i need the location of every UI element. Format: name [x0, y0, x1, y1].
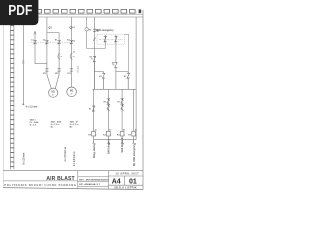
frame left border — [2, 10, 4, 188]
wire feeder W1 — [22, 17, 24, 104]
svg-text:2T1: 2T1 — [43, 73, 46, 75]
svg-text:SAK blower 2: SAK blower 2 — [121, 137, 124, 153]
wire branch C — [70, 17, 72, 87]
wire top supply bus L1 — [3, 16, 143, 18]
wire slant A to motor M1 — [47, 75, 51, 89]
frame column ticks — [6, 11, 137, 15]
svg-text:4 x 1,5: 4 x 1,5 — [30, 123, 37, 126]
label F1 — [61, 55, 63, 57]
svg-text:MCB emergency: MCB emergency — [96, 30, 115, 32]
contacts on branch 2 — [107, 98, 110, 111]
wire supply elbow — [35, 63, 47, 65]
label F2 — [73, 55, 75, 57]
wire branch A — [46, 17, 48, 75]
switch slash on rail — [93, 38, 95, 41]
svg-text:6T3: 6T3 — [67, 73, 70, 75]
breaker pole contact on branch A — [45, 40, 48, 44]
svg-text:6 x 1,5 mm: 6 x 1,5 mm — [26, 106, 38, 108]
coil K2 — [106, 131, 110, 136]
overload contact on branch B — [58, 69, 61, 71]
terminal strip rungs — [10, 16, 14, 166]
date row bottom line — [109, 175, 144, 177]
wire coil branch 2 — [107, 89, 109, 131]
fuse F0 stub wire — [86, 17, 88, 28]
aux contact K2 — [102, 72, 105, 90]
breaker pole contact on supply line — [33, 40, 36, 44]
wire coil branch 4 — [133, 89, 135, 131]
wire control rail — [93, 17, 95, 89]
wire control mid bus — [93, 88, 137, 90]
MCB pole 1 — [104, 35, 107, 44]
svg-text:K1: K1 — [55, 39, 57, 41]
svg-text:13: 13 — [73, 41, 75, 43]
overload contact on branch A — [45, 69, 48, 71]
title block left divider line — [3, 180, 78, 182]
supply arrow incoming feed — [34, 31, 36, 34]
svg-text:01: 01 — [129, 178, 137, 185]
sheet cell divider — [124, 176, 126, 185]
svg-text:PDF: PDF — [8, 2, 32, 19]
note block cable A — [30, 118, 39, 126]
note block cable C — [70, 120, 80, 128]
wire from MCB box to K1 aux branch — [125, 33, 129, 35]
coil terminal labels — [95, 129, 137, 137]
svg-text:POLITEKNIK NEGERI UJUNG PANDAN: POLITEKNIK NEGERI UJUNG PANDANG — [4, 183, 76, 187]
disconnect contact on rail — [93, 29, 96, 31]
motor M2 — [67, 87, 77, 97]
wire coil branch 3 — [121, 89, 123, 131]
svg-text:K2: K2 — [104, 101, 106, 103]
stub below bus 3 — [121, 140, 123, 144]
svg-text:4T2: 4T2 — [55, 72, 58, 75]
wire coil branch 1 — [93, 89, 95, 131]
coil K3 — [120, 131, 124, 136]
svg-text:Rang. utama: Rang. utama — [93, 143, 96, 158]
node end of feeder W1 — [22, 103, 24, 105]
svg-text:21: 21 — [73, 51, 75, 53]
middle box row divider — [78, 180, 109, 182]
frame right border — [142, 10, 144, 190]
svg-text:6 x 2,5 mm: 6 x 2,5 mm — [24, 153, 26, 165]
svg-text:DIP : ADHAR AB, S.T: DIP : ADHAR AB, S.T — [79, 183, 100, 186]
wire supply shaft — [34, 31, 36, 63]
svg-text:L1: L1 — [73, 27, 75, 29]
wire S2 branch to K1 aux — [115, 68, 117, 89]
svg-text:4 x 1,5 mm re: 4 x 1,5 mm re — [64, 146, 67, 161]
contactor contact K2 on branch C — [70, 40, 73, 44]
svg-text:K2: K2 — [99, 76, 101, 78]
wire coil3 to bus — [121, 136, 123, 140]
sheet row bottom line — [109, 184, 144, 186]
svg-text:K1: K1 — [89, 108, 91, 110]
wire slant B to motor M1 — [55, 75, 59, 89]
wire below fuse — [86, 31, 88, 49]
svg-text:K2: K2 — [67, 39, 69, 41]
title block vertical divider right — [108, 171, 110, 189]
pushbutton S1 on rail — [91, 56, 96, 62]
motor M1 — [49, 88, 58, 97]
wire rail to K2 aux — [94, 71, 103, 73]
wire MCB pole1 down — [104, 44, 106, 48]
wire branch B — [58, 33, 60, 75]
contactor contact K1 on branch B — [58, 40, 61, 44]
middle box bottom line — [78, 185, 109, 187]
terminal strip ladder right rail — [13, 15, 15, 170]
stub below bus 4 — [133, 140, 135, 144]
MCB dash-dot link — [99, 38, 123, 40]
svg-text:K1: K1 — [117, 101, 119, 103]
frame top coordinate strip — [2, 9, 141, 13]
svg-text:Bp. SAK emergency: Bp. SAK emergency — [133, 143, 136, 166]
title block vertical divider left — [77, 171, 79, 189]
wire rail below S1 — [93, 62, 95, 89]
svg-text:15 APRIL 2017: 15 APRIL 2017 — [115, 172, 139, 176]
svg-text:x: x — [110, 134, 111, 136]
svg-text:SAK blower 1: SAK blower 1 — [108, 138, 111, 154]
svg-text:3 x 2,5 mm re: 3 x 2,5 mm re — [74, 151, 76, 166]
wire bottom control bus — [94, 139, 137, 141]
middle box top line — [78, 176, 109, 178]
MCB emergency dashed box — [97, 34, 125, 44]
wire coil1 to bus — [93, 136, 95, 140]
svg-text:2 x 1,5: 2 x 1,5 — [77, 65, 79, 72]
frame bottom border — [3, 188, 143, 190]
wire MCB pole2 down — [115, 44, 117, 62]
pin labels under bus — [95, 143, 136, 146]
svg-text:A4: A4 — [112, 178, 121, 185]
coil H1 — [132, 131, 136, 136]
svg-text:AIR BLAST: AIR BLAST — [46, 176, 74, 182]
stub below bus 2 — [107, 140, 109, 144]
svg-text:x: x — [136, 134, 137, 136]
pushbutton S2 — [112, 62, 117, 68]
svg-text:2B D.II LISTRIK: 2B D.II LISTRIK — [114, 185, 137, 189]
stub below bus 1 — [92, 140, 94, 144]
MCB pole 2 — [114, 35, 117, 44]
overload contact on branch C — [70, 69, 73, 71]
overload F2 on branch C — [70, 53, 72, 59]
PDF badge — [0, 0, 38, 25]
breaker Q1 mechanical dashed link — [31, 41, 75, 43]
terminal strip ladder left rail — [9, 15, 11, 170]
wire coil2 to bus — [107, 136, 109, 140]
svg-text:1 2: 1 2 — [31, 39, 34, 41]
wire coil4 to bus — [133, 136, 135, 140]
wire split A to B — [47, 32, 59, 34]
svg-text:ENO : AKHI BURHANUDDIN B: ENO : AKHI BURHANUDDIN B — [79, 178, 109, 181]
contacts on branch 3 — [121, 98, 124, 111]
wire fuse to rail — [87, 48, 106, 50]
note block cable B — [51, 120, 62, 128]
svg-text:K1: K1 — [124, 76, 126, 78]
fuse F0 — [85, 28, 88, 31]
svg-text:x: x — [96, 134, 97, 136]
coil K1 — [92, 131, 96, 136]
cable marker on wire W1 — [22, 60, 24, 64]
aux contact K1 — [127, 72, 130, 90]
wire neutral rail — [135, 17, 137, 140]
title block top line — [3, 170, 143, 172]
frame top inner line — [3, 13, 144, 15]
contact on branch 1 — [92, 106, 95, 112]
overload F1 on branch B — [58, 53, 60, 59]
svg-text:x: x — [124, 134, 125, 136]
